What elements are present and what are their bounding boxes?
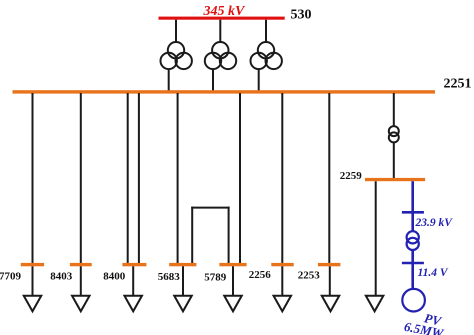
transformer T1 (three-winding) bbox=[161, 42, 192, 69]
svg-text:2256: 2256 bbox=[249, 269, 271, 281]
feeder 5789 wire bbox=[239, 93, 241, 265]
bus 2256 (orange bar) bbox=[271, 263, 293, 266]
feeder 5683 wire bbox=[177, 93, 179, 265]
load arrow 2256 bbox=[274, 296, 292, 312]
load wire 7709 bbox=[32, 266, 34, 295]
svg-text:5789: 5789 bbox=[204, 272, 227, 284]
svg-text:8403: 8403 bbox=[50, 270, 73, 282]
transformer T2 bottom lead wire bbox=[212, 70, 214, 92]
feeder 8403 wire bbox=[80, 93, 82, 265]
load wire 2259 bbox=[375, 181, 377, 295]
svg-text:5683: 5683 bbox=[158, 271, 181, 283]
transformer T5 (PV two-winding, blue) bbox=[407, 231, 419, 250]
transformer T3 (three-winding) bbox=[251, 42, 282, 69]
bus 5789 (orange bar) bbox=[219, 263, 246, 266]
svg-text:2251: 2251 bbox=[444, 76, 472, 91]
bus 5683 (orange bar) bbox=[169, 263, 196, 266]
feeder to 2259 wire (upper) bbox=[393, 93, 395, 127]
load arrow 2259 bbox=[366, 296, 384, 312]
generator PV (circle) bbox=[402, 289, 425, 312]
load wire 2256 bbox=[281, 266, 283, 295]
feeder 2253 wire bbox=[328, 93, 330, 265]
svg-text:345 kV: 345 kV bbox=[203, 4, 247, 19]
feeder 2256 wire bbox=[281, 93, 283, 265]
load arrow 8400 bbox=[124, 296, 142, 312]
tie loop left wire bbox=[191, 207, 193, 265]
load wire 5789 bbox=[232, 266, 234, 295]
bus 8400 (orange bar) bbox=[122, 263, 146, 266]
load wire 8400 bbox=[132, 266, 134, 295]
bus 2253 (orange bar) bbox=[318, 263, 340, 266]
transformer T3 top lead wire bbox=[265, 20, 267, 42]
tie loop right wire bbox=[228, 207, 230, 265]
feeder to 2259 wire (lower) bbox=[393, 143, 395, 180]
svg-text:7709: 7709 bbox=[0, 270, 22, 282]
svg-text:11.4 V: 11.4 V bbox=[418, 267, 449, 279]
node 11.4 V tick bbox=[402, 262, 424, 265]
load arrow 2253 bbox=[322, 296, 340, 312]
bus 345 kV (red top bus) bbox=[159, 17, 285, 20]
svg-text:530: 530 bbox=[291, 8, 312, 23]
svg-text:23.9 kV: 23.9 kV bbox=[415, 217, 454, 229]
svg-text:2259: 2259 bbox=[340, 170, 363, 182]
feeder 8400 wire (circuit 2) bbox=[138, 93, 140, 265]
load wire 5683 bbox=[182, 266, 184, 295]
svg-text:8400: 8400 bbox=[103, 270, 126, 282]
PV branch wire (transformer to PV) bbox=[411, 250, 414, 289]
load arrow 5789 bbox=[224, 296, 242, 312]
transformer T2 top lead wire bbox=[219, 20, 221, 42]
bus 2251 (orange main bus) bbox=[13, 90, 436, 93]
transformer T4 (two-winding) bbox=[389, 126, 399, 142]
transformer T2 (three-winding) bbox=[205, 42, 236, 69]
transformer T3 bottom lead wire bbox=[258, 70, 260, 92]
bus 2259 (orange bar) bbox=[365, 178, 425, 181]
load wire 8403 bbox=[80, 266, 82, 295]
load arrow 7709 bbox=[24, 296, 42, 312]
load wire 2253 bbox=[329, 266, 331, 295]
svg-text:2253: 2253 bbox=[298, 269, 321, 281]
tie loop top wire bbox=[191, 207, 229, 209]
load arrow 5683 bbox=[174, 296, 192, 312]
PV branch wire (bus 2259 to transformer) bbox=[411, 181, 414, 231]
feeder 7709 wire bbox=[32, 93, 34, 265]
feeder 8400 wire (circuit 1) bbox=[127, 93, 129, 265]
transformer T1 bottom lead wire bbox=[168, 70, 170, 92]
transformer T1 top lead wire bbox=[175, 20, 177, 42]
bus 8403 (orange bar) bbox=[70, 263, 92, 266]
bus 7709 (orange bar) bbox=[21, 263, 44, 266]
node 23.9 kV tick bbox=[402, 211, 424, 214]
load arrow 8403 bbox=[72, 296, 90, 312]
